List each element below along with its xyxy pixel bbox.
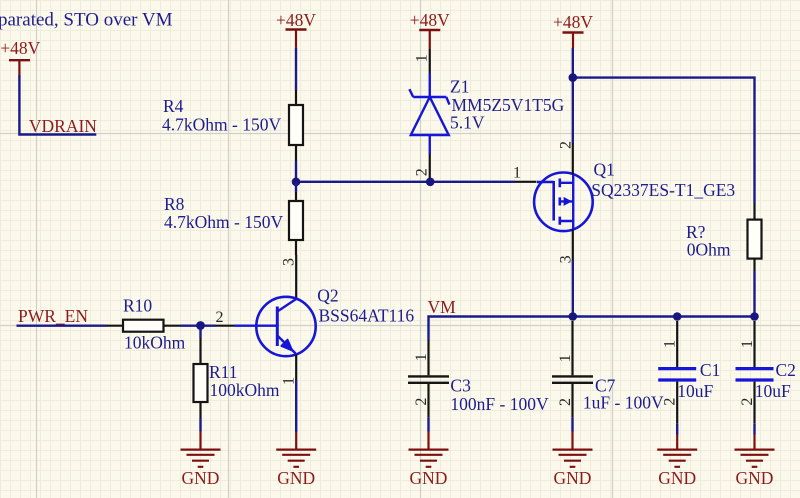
svg-text:PWR_EN: PWR_EN xyxy=(18,306,88,326)
svg-text:10uF: 10uF xyxy=(755,381,791,401)
svg-text:100kOhm: 100kOhm xyxy=(210,380,280,400)
svg-text:R8: R8 xyxy=(164,194,185,214)
pin 2 of C1 (black) xyxy=(676,382,678,424)
svg-text:2: 2 xyxy=(413,398,430,406)
svg-text:R11: R11 xyxy=(209,362,238,382)
wire PWR_EN to R10 xyxy=(17,325,107,327)
svg-text:parated, STO over VM: parated, STO over VM xyxy=(0,10,173,31)
svg-text:2: 2 xyxy=(216,309,224,326)
wire C1 to gnd xyxy=(676,423,678,434)
svg-text:Q2: Q2 xyxy=(317,285,338,305)
svg-text:GND: GND xyxy=(182,468,220,488)
pin 2 of Q2 base (black) xyxy=(215,325,234,327)
node junction Q1/VM xyxy=(569,312,578,321)
svg-text:2: 2 xyxy=(662,398,679,406)
wire R10 to node xyxy=(180,325,215,327)
svg-text:1uF - 100V: 1uF - 100V xyxy=(583,393,664,413)
zener diode Z1 xyxy=(409,73,564,154)
svg-text:1: 1 xyxy=(414,54,431,62)
ground (C7) xyxy=(553,432,593,489)
svg-text:GND: GND xyxy=(736,468,774,488)
wire Q2 emitter to gnd xyxy=(295,380,297,432)
resistor R11 xyxy=(194,338,280,418)
pin 1 of C1 (black) xyxy=(676,321,678,367)
ground (C3) xyxy=(409,432,449,489)
transistor Q2 xyxy=(234,285,414,356)
pin 2 of C7 (black) xyxy=(571,384,573,418)
svg-text:VDRAIN: VDRAIN xyxy=(29,116,97,136)
wire R4 to node xyxy=(295,161,297,182)
svg-text:+48V: +48V xyxy=(0,38,40,58)
resistor R4 xyxy=(162,90,303,161)
wire R11 to gnd xyxy=(199,418,201,432)
resistor R10 xyxy=(107,296,186,353)
node junction C1/VM xyxy=(673,312,682,321)
svg-text:GND: GND xyxy=(554,468,592,488)
capacitor C3 xyxy=(408,375,549,414)
wire C7 to gnd xyxy=(571,418,573,432)
mosfet Q1 xyxy=(534,159,735,231)
ground (C1) xyxy=(657,435,697,489)
svg-text:5.1V: 5.1V xyxy=(450,113,485,133)
svg-text:10kOhm: 10kOhm xyxy=(124,333,186,353)
pin 2 of C3 (black) xyxy=(427,384,429,418)
wire C2 to gnd xyxy=(753,423,755,434)
svg-text:4.7kOhm - 150V: 4.7kOhm - 150V xyxy=(164,212,283,232)
svg-text:4.7kOhm - 150V: 4.7kOhm - 150V xyxy=(162,115,281,135)
svg-text:0Ohm: 0Ohm xyxy=(687,240,731,260)
svg-text:100nF - 100V: 100nF - 100V xyxy=(450,394,549,414)
node junction R?/C2/VM xyxy=(750,312,759,321)
capacitor C2 xyxy=(736,360,796,401)
svg-text:GND: GND xyxy=(410,468,448,488)
capacitor C7 xyxy=(552,375,664,412)
svg-text:C3: C3 xyxy=(450,375,471,395)
node junction +48V/Q1/top rail xyxy=(569,73,578,82)
ground (C2) xyxy=(735,435,775,489)
pin 1 of Z1 (black) xyxy=(429,49,431,73)
wire node to R11 xyxy=(199,326,201,338)
pin 1 of C2 (black) xyxy=(753,321,755,367)
node junction R10/R11/base xyxy=(196,321,205,330)
svg-text:R10: R10 xyxy=(123,296,152,316)
power +48V (zener branch) xyxy=(410,10,450,49)
wire node to R8 xyxy=(295,182,297,192)
pin 1 of Q2 emitter (black) xyxy=(295,354,297,380)
svg-text:C2: C2 xyxy=(776,360,796,380)
pin 2 of C2 (black) xyxy=(753,382,755,424)
node junction zener/gate rail xyxy=(426,178,435,187)
pin 1 of Q1 gate (black) xyxy=(515,181,537,183)
resistor R8 xyxy=(164,192,303,255)
power +48V (Q1 source branch) xyxy=(553,12,593,48)
svg-text:2: 2 xyxy=(414,168,431,176)
svg-text:1: 1 xyxy=(513,165,521,182)
pin 3 of Q1 (black) xyxy=(572,230,574,261)
ground (R11) xyxy=(181,432,221,489)
svg-text:+48V: +48V xyxy=(553,12,593,32)
svg-text:VM: VM xyxy=(428,297,457,317)
svg-text:2: 2 xyxy=(557,398,574,406)
wire top rail to R? xyxy=(573,78,755,203)
ground (Q2) xyxy=(276,432,316,488)
svg-text:GND: GND xyxy=(277,468,315,488)
pin 1 of C3 (black) xyxy=(427,340,429,375)
wire +48V to R4 xyxy=(295,48,297,90)
svg-text:SQ2337ES-T1_GE3: SQ2337ES-T1_GE3 xyxy=(591,180,735,200)
pin 2 of Q1 (black) xyxy=(572,144,574,175)
svg-text:2: 2 xyxy=(739,398,756,406)
svg-text:C1: C1 xyxy=(700,360,720,380)
svg-text:BSS64AT116: BSS64AT116 xyxy=(319,306,415,326)
pin 1 of C7 (black) xyxy=(571,321,573,375)
wire VM rail xyxy=(429,317,755,341)
resistor R? xyxy=(686,203,762,271)
svg-text:10uF: 10uF xyxy=(677,381,713,401)
power +48V (VDRAIN branch) xyxy=(0,38,40,75)
svg-text:+48V: +48V xyxy=(410,10,450,30)
pin 2 of Z1 (black) xyxy=(429,154,431,179)
svg-text:Q1: Q1 xyxy=(594,159,615,179)
capacitor C1 xyxy=(658,360,720,401)
wire R? to VM xyxy=(753,271,755,317)
wire +48V to Q1 source xyxy=(572,48,574,144)
svg-text:+48V: +48V xyxy=(276,10,316,30)
wire gate rail xyxy=(296,181,515,183)
wire VDRAIN xyxy=(19,75,96,135)
power +48V (R4 branch) xyxy=(276,10,316,48)
wire C3 to gnd xyxy=(427,418,429,432)
wire/pin R8 to Q2 collector xyxy=(295,255,297,299)
wire Q1 drain to VM xyxy=(572,260,574,317)
svg-text:Z1: Z1 xyxy=(450,77,469,97)
svg-text:R4: R4 xyxy=(163,96,184,116)
node junction R4/R8/gate xyxy=(292,178,301,187)
svg-text:GND: GND xyxy=(658,468,696,488)
